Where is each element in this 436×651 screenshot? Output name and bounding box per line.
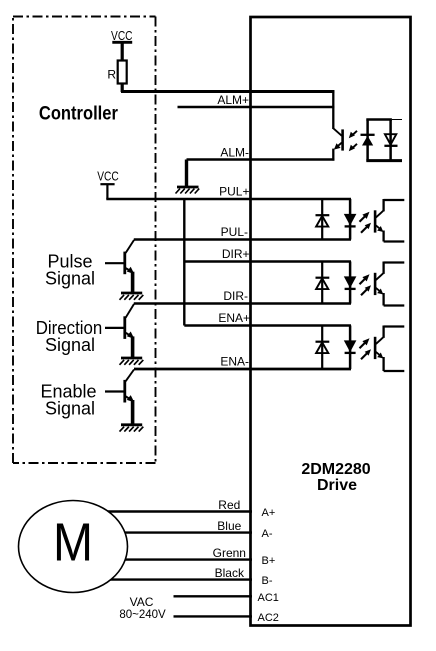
svg-text:Black: Black bbox=[215, 566, 245, 580]
svg-text:A+: A+ bbox=[262, 507, 276, 519]
svg-text:B-: B- bbox=[262, 575, 273, 587]
svg-text:Signal: Signal bbox=[45, 398, 95, 418]
svg-text:VAC: VAC bbox=[130, 595, 154, 609]
svg-text:B+: B+ bbox=[262, 555, 276, 567]
svg-text:PUL-: PUL- bbox=[221, 225, 248, 239]
svg-text:Blue: Blue bbox=[217, 519, 241, 533]
svg-text:ALM+: ALM+ bbox=[217, 93, 249, 107]
svg-text:ENA-: ENA- bbox=[220, 355, 249, 369]
svg-text:AC1: AC1 bbox=[258, 592, 279, 604]
svg-text:DIR-: DIR- bbox=[223, 289, 248, 303]
svg-text:Red: Red bbox=[218, 498, 240, 512]
svg-text:PUL+: PUL+ bbox=[219, 185, 249, 199]
svg-text:VCC: VCC bbox=[97, 170, 119, 184]
svg-text:Controller: Controller bbox=[39, 104, 119, 125]
svg-text:Grenn: Grenn bbox=[213, 546, 246, 560]
svg-text:AC2: AC2 bbox=[258, 612, 279, 624]
svg-text:2DM2280: 2DM2280 bbox=[301, 461, 370, 478]
svg-text:DIR+: DIR+ bbox=[222, 247, 250, 261]
svg-text:R: R bbox=[107, 68, 116, 82]
svg-text:Signal: Signal bbox=[45, 335, 95, 355]
svg-text:80~240V: 80~240V bbox=[119, 609, 166, 621]
svg-text:Signal: Signal bbox=[45, 268, 95, 288]
svg-text:A-: A- bbox=[262, 528, 273, 540]
svg-text:Drive: Drive bbox=[317, 477, 357, 494]
svg-text:M: M bbox=[53, 512, 93, 572]
svg-text:ALM-: ALM- bbox=[220, 145, 249, 159]
svg-text:ENA+: ENA+ bbox=[218, 311, 250, 325]
